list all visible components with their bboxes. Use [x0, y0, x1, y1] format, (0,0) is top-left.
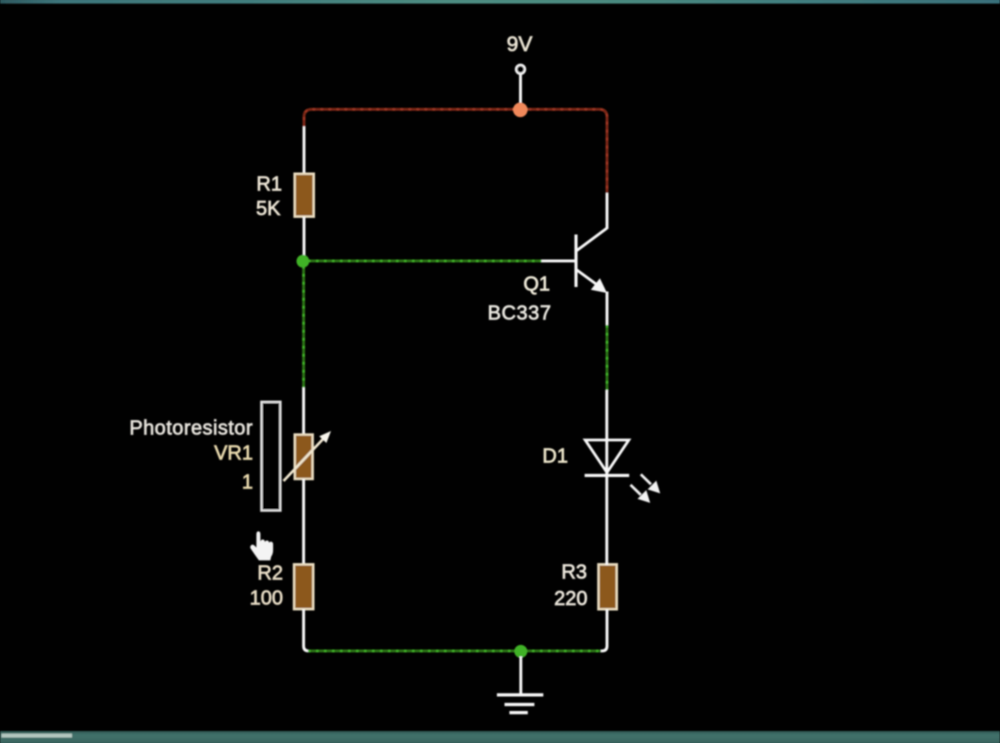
- wire: emitter lead (white): [606, 292, 609, 327]
- svg-text:BC337: BC337: [488, 303, 552, 325]
- wire: base net horizontal (green): [308, 259, 542, 262]
- transistor Q1 emitter arrow: [591, 278, 607, 293]
- wire: top rail (dark red, V+ net): [304, 109, 607, 194]
- resistor R3: [598, 564, 616, 609]
- ground symbol: [497, 695, 543, 713]
- svg-text:R2: R2: [257, 563, 283, 585]
- svg-text:220: 220: [554, 588, 587, 610]
- resistor R2: [294, 564, 313, 609]
- top teal bar: [0, 0, 1000, 4]
- svg-text:9V: 9V: [507, 33, 533, 56]
- wire: R3 bottom lead to bottom rail (white): [600, 609, 607, 651]
- wire: emitter net (green): [606, 325, 609, 391]
- LED light arrow 1: [641, 474, 660, 493]
- node: 9V open terminal: [516, 65, 525, 74]
- LED light arrow 2: [631, 485, 651, 503]
- hand cursor: [250, 531, 273, 560]
- node: ground junction (green): [514, 645, 527, 658]
- svg-text:5K: 5K: [256, 198, 281, 220]
- svg-text:1: 1: [242, 472, 253, 494]
- svg-text:VR1: VR1: [214, 443, 253, 465]
- svg-text:Q1: Q1: [523, 274, 550, 296]
- svg-text:R1: R1: [256, 174, 282, 196]
- variable resistor VR1 body: [295, 435, 313, 480]
- wire: bottom rail (green, ground net): [308, 649, 601, 652]
- photoresistor light-level slider frame: [261, 402, 280, 511]
- wire: collector vertical (white): [606, 193, 609, 229]
- video progress strip: [2, 734, 73, 738]
- LED D1 triangle: [585, 440, 629, 473]
- svg-text:100: 100: [250, 588, 283, 610]
- wire: R1 bottom lead (white): [303, 217, 306, 256]
- wire: R2 bottom lead to bottom rail (white): [304, 609, 310, 651]
- svg-text:R3: R3: [561, 561, 587, 583]
- transistor Q1: [576, 228, 607, 287]
- svg-text:D1: D1: [542, 445, 568, 467]
- wire: base lead of Q1 (white): [542, 259, 576, 262]
- node: V+ junction (orange): [513, 103, 528, 118]
- node: base junction (green): [297, 255, 310, 268]
- variable resistor VR1 arrow: [284, 438, 325, 481]
- bottom teal bar: [0, 731, 1000, 743]
- wire: photoresistor bottom lead (white): [302, 479, 305, 565]
- wire: LED anode lead (white, continuous through triangle): [605, 390, 608, 475]
- wire: 9V terminal stub: [519, 75, 522, 105]
- wire: base net vertical (green): [302, 266, 305, 389]
- LED D1 cathode bar: [585, 474, 630, 477]
- wire: R1 top lead (white): [303, 127, 306, 176]
- wire: photoresistor top lead (white): [302, 388, 305, 436]
- wire: ground stem (white): [519, 657, 522, 695]
- resistor R1: [295, 174, 314, 217]
- wire: LED cathode lead (white): [605, 475, 608, 565]
- svg-text:Photoresistor: Photoresistor: [129, 418, 253, 440]
